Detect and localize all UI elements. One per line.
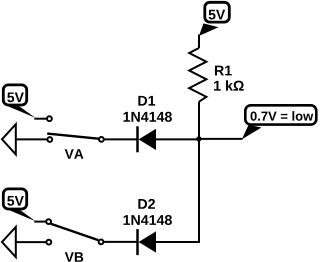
power flag 5V (lower left, for switch B) [3,189,35,221]
wire: VA port to switch A lower throw [16,138,47,140]
switch B lever [51,224,98,240]
switch A lower throw terminal (VA side) [47,137,52,142]
wire: upper-left 5V flag to switch A upper throw [34,118,46,120]
switch A common terminal [99,137,104,142]
label VB [65,252,83,261]
wire: output node stub to annotation flag [199,138,243,140]
resistor R1 [189,48,244,102]
diode D2 cathode bar [136,229,139,255]
label D2 [138,199,155,209]
diode D1 cathode bar [136,126,139,152]
label 1N4148 (D2) [123,215,171,225]
node output junction dot [196,136,201,141]
label VA [65,149,84,158]
wire: D1 anode to output node [156,138,199,140]
switch B upper throw terminal (5V side) [46,219,51,224]
power flag 5V (upper left, for switch A) [3,85,35,118]
port triangle VA [2,124,16,154]
wire: VB port to switch B lower throw [16,241,46,243]
label D1 [138,96,155,106]
diode D2 body [139,231,156,252]
wire: D2 anode to main vertical [156,241,199,243]
switch B lower throw terminal (VB side) [46,240,51,245]
wire: top 5V flag to R1 top lead [198,35,200,49]
wire: main vertical from output node down to D2 row [157,139,199,242]
label 1N4148 (D1) [123,112,171,122]
wire: R1 bottom lead to output node [198,102,200,139]
power flag 5V (top) [199,2,229,36]
wire: switch B common to D2 cathode [104,241,137,243]
switch A lever [47,134,98,139]
wire: switch A common to D1 cathode [105,138,138,140]
switch A upper throw terminal (5V side) [47,116,52,121]
annotation flag "0.7V = low" [242,105,316,139]
switch B common terminal [99,240,104,245]
wire: lower-left 5V flag to switch B upper throw [34,221,45,223]
port triangle VB [2,227,16,257]
diode D1 body [139,129,156,150]
